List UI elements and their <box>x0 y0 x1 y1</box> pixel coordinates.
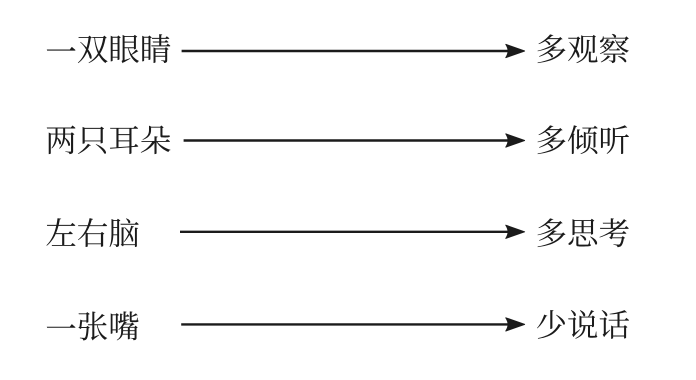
label text "一张嘴" <box>47 311 139 340</box>
arrow 4 line <box>181 323 510 325</box>
arrow 2 line <box>184 139 511 141</box>
arrow 1 line <box>182 50 511 52</box>
arrow 3 line <box>180 231 511 233</box>
arrow 2 head <box>506 134 525 147</box>
label text "多倾听" <box>538 125 629 154</box>
label text "多观察" <box>538 34 629 63</box>
label text "两只耳朵" <box>47 126 171 155</box>
label text "一双眼睛" <box>47 34 171 63</box>
arrow 1 head <box>506 44 525 57</box>
label text "少说话" <box>537 310 629 339</box>
label text "多思考" <box>538 218 629 247</box>
arrow 4 head <box>506 318 525 331</box>
arrow 3 head <box>506 225 525 238</box>
label text "左右脑" <box>46 218 138 247</box>
